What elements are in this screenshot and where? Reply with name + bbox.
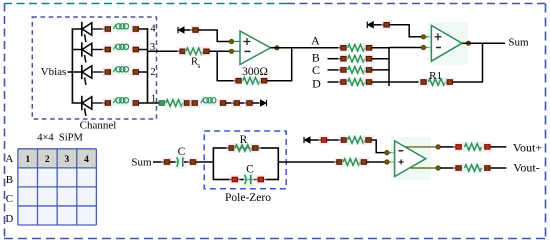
pad row2 right <box>130 67 141 76</box>
wire RA to bus <box>372 47 389 49</box>
node opamp1 output <box>275 46 279 50</box>
pad Rin+ left <box>334 157 345 166</box>
pad RB left <box>338 54 349 63</box>
wire row2 diode to pad <box>92 71 105 73</box>
stub opamp3 minus <box>389 152 395 154</box>
inductor row3 <box>112 43 129 53</box>
svg-text:300Ω: 300Ω <box>242 66 268 78</box>
pad R pz left <box>226 143 237 152</box>
svg-text:s: s <box>198 61 201 70</box>
svg-text:Vbias: Vbias <box>41 66 67 78</box>
node opamp2 output <box>466 41 470 45</box>
wire pad to opamp2 plus <box>389 25 421 37</box>
wire Sum to cap <box>153 161 165 163</box>
resistor R pz <box>234 144 253 153</box>
svg-text:C: C <box>6 193 13 205</box>
node opamp1 plus <box>229 39 233 43</box>
wire pad to opamp1 plus <box>198 30 229 42</box>
svg-text:2: 2 <box>150 67 155 78</box>
wire Rin+ to opamp3 plus <box>367 161 385 163</box>
svg-text:C: C <box>312 63 320 77</box>
pad Rs right <box>201 47 212 56</box>
svg-text:Sum: Sum <box>508 37 529 49</box>
input arrow opamp2 <box>367 21 374 29</box>
pad R1 left <box>418 77 429 86</box>
wire row3 to bus <box>139 49 148 51</box>
pad Rin+ right <box>358 157 369 166</box>
inductor row2 <box>112 66 129 76</box>
resistor Rin+ <box>342 158 361 167</box>
node opamp3 out- <box>436 166 440 170</box>
wire row1 diode to pad <box>92 102 105 104</box>
wire feedback tap down <box>217 51 236 80</box>
inductor row1 out <box>200 97 217 107</box>
wire Rs to opamp1 minus <box>209 50 229 52</box>
svg-text:C: C <box>178 146 186 158</box>
svg-text:C: C <box>246 164 254 176</box>
wire summing node to opamp2 minus <box>389 47 422 49</box>
wire row4 diode to pad <box>92 28 105 30</box>
wire Rin- to opamp3 minus <box>372 140 386 153</box>
diode D2 <box>82 65 92 85</box>
svg-text:D: D <box>5 213 13 225</box>
pad R pz right <box>250 143 261 152</box>
wire opamp3 out- lead <box>411 167 436 169</box>
pole-zero dashed box <box>204 131 286 189</box>
pad row3 left <box>102 45 113 54</box>
wire Rout- to Vout- <box>490 167 506 169</box>
svg-text:R1: R1 <box>429 70 442 82</box>
node opamp2 plus <box>421 35 425 39</box>
outer dashed border bottom <box>4 238 546 240</box>
wire pad to Rin- <box>327 139 342 141</box>
pad RA right <box>364 43 375 52</box>
pad RC left <box>338 65 349 74</box>
wire RC to bus <box>372 69 389 71</box>
capacitor C pz <box>243 173 254 187</box>
wire row2 to bus <box>139 71 148 73</box>
svg-text:D: D <box>312 77 321 91</box>
diode D3 <box>82 42 92 62</box>
svg-text:A: A <box>5 153 13 165</box>
svg-text:Vout+: Vout+ <box>513 141 542 155</box>
pad Rout+ left <box>453 142 464 151</box>
wire row4 to bus <box>139 28 148 30</box>
svg-text:B: B <box>6 174 13 186</box>
node opamp3 minus <box>385 150 389 154</box>
pad row1 left <box>102 98 113 107</box>
pad row1 coil left <box>189 98 200 107</box>
wire row1 out a <box>226 102 234 104</box>
SiPM grid body fill <box>18 149 97 225</box>
inductor row4 <box>112 23 129 33</box>
wire arrow2 to pad <box>374 24 384 26</box>
wire arrow3 to pad <box>311 139 322 141</box>
input arrow row4 <box>178 26 185 34</box>
pad row4 right <box>130 24 141 33</box>
pad Rs left <box>177 47 188 56</box>
wire Rout+ to Vout+ <box>490 146 506 148</box>
resistor RD <box>347 78 366 87</box>
wire row1 out c <box>253 102 260 104</box>
pad row1 out b <box>231 98 242 107</box>
svg-text:1: 1 <box>25 155 30 165</box>
resistor Rs <box>185 47 204 56</box>
wire Vbias bus <box>71 29 73 103</box>
svg-text:Channel: Channel <box>80 120 117 132</box>
pad Rout+ right <box>482 142 493 151</box>
pad row1 out c <box>244 98 255 107</box>
wire row1 out b <box>240 102 247 104</box>
wire row3 to Rs <box>148 50 181 52</box>
wire row1 to bus <box>139 102 148 104</box>
wire row1 anode <box>72 102 82 104</box>
wire pole-zero out to resistor <box>278 161 336 163</box>
pad 300ohm right <box>259 76 270 85</box>
outer dashed border right <box>545 4 547 240</box>
wire out- to pad <box>440 167 456 169</box>
pad cap C left <box>162 157 173 166</box>
pad R1 right <box>444 77 455 86</box>
stub opamp2 minus <box>426 47 432 49</box>
wire opamp3 out+ lead <box>406 146 437 148</box>
pad RC right <box>364 65 375 74</box>
wire R1 to output <box>453 43 483 82</box>
pad row1 coil right <box>218 98 229 107</box>
wire RD to bus <box>372 81 389 83</box>
wire summing bus <box>388 48 390 86</box>
pad RA left <box>338 43 349 52</box>
wire cap to pad <box>184 161 190 163</box>
wire stub C <box>328 69 342 71</box>
stub opamp2 plus <box>426 36 432 38</box>
wire opamp2 output to Sum <box>462 42 505 44</box>
pad row4 left <box>102 24 113 33</box>
pad Rout- right <box>482 163 493 172</box>
SiPM grid lines <box>18 149 97 225</box>
pad opamp2 plus input <box>381 20 392 29</box>
resistor R1 <box>427 78 446 87</box>
pad Rin- left <box>339 135 350 144</box>
capacitor C series <box>176 155 187 169</box>
resistor Rin- <box>347 136 366 145</box>
pad 300ohm left <box>233 76 244 85</box>
wire pad to pole-zero loop <box>196 161 214 163</box>
pad Rout- left <box>453 163 464 172</box>
op-amp U1 <box>240 31 271 65</box>
node opamp2 minus <box>421 45 425 49</box>
wire row1 to R2 <box>148 102 160 104</box>
wire 300ohm to output <box>267 48 292 81</box>
wire Vbias stub <box>68 71 73 73</box>
pad C pz right <box>255 175 266 184</box>
wire row3 diode to pad <box>92 49 105 51</box>
svg-text:4: 4 <box>150 24 156 35</box>
svg-text:R: R <box>240 134 248 146</box>
svg-text:3: 3 <box>65 155 70 165</box>
resistor RA <box>347 43 366 52</box>
node opamp3 out+ <box>436 145 440 149</box>
wire RB to bus <box>372 58 389 60</box>
resistor Rout- <box>464 164 483 173</box>
outer dashed border left <box>4 4 6 240</box>
pad row1 R right <box>182 98 193 107</box>
pad RD left <box>338 77 349 86</box>
stub opamp1 minus <box>234 50 241 52</box>
diode D1 <box>82 96 92 116</box>
outer dashed border top right <box>287 3 546 5</box>
pad opamp1 plus input <box>190 25 201 34</box>
resistor row1 <box>165 99 184 108</box>
outer dashed border top left <box>4 3 287 5</box>
svg-text:A: A <box>311 34 320 48</box>
op-amp U2 <box>428 22 468 65</box>
svg-text:4×4 SiPM: 4×4 SiPM <box>37 133 83 144</box>
wire arrow to pad <box>185 29 194 31</box>
resistor 300ohm <box>242 76 261 85</box>
svg-text:Vout-: Vout- <box>513 160 539 174</box>
resistor RB <box>347 54 366 63</box>
node opamp3 plus <box>385 160 389 164</box>
inductor row1 <box>112 97 129 107</box>
wire pad to cap <box>170 161 178 163</box>
stub opamp3 plus <box>389 161 395 163</box>
op-amp U3 <box>391 137 431 180</box>
pad row2 left <box>102 67 113 76</box>
wire opamp1 output to summing resistor A <box>271 47 342 49</box>
input arrow opamp3 <box>304 136 311 144</box>
wire stub D <box>328 81 342 83</box>
wire channel bus <box>147 28 149 103</box>
wire R1 feedback <box>389 81 419 83</box>
pad row1 right <box>130 98 141 107</box>
channel dashed box <box>32 17 156 119</box>
wire out+ to pad <box>440 146 456 148</box>
svg-text:4: 4 <box>84 155 89 165</box>
pad cap C right <box>188 157 199 166</box>
pad arrow3 <box>319 135 330 144</box>
wire row3 anode <box>72 49 82 51</box>
pad row1 R left <box>159 101 164 106</box>
wire row4 anode <box>72 28 82 30</box>
SiPM grid top row fill <box>18 149 97 168</box>
wire stub B <box>328 58 342 60</box>
svg-text:Pole-Zero: Pole-Zero <box>225 192 271 204</box>
svg-text:Sum: Sum <box>131 157 152 169</box>
svg-text:2: 2 <box>45 155 50 165</box>
pad C pz left <box>229 175 240 184</box>
diode D4 <box>82 22 92 42</box>
resistor RC <box>347 65 366 74</box>
stub opamp1 plus <box>234 41 241 43</box>
resistor Rout+ <box>464 142 483 151</box>
node opamp1 minus <box>229 49 233 53</box>
wire pole-zero loop <box>213 148 278 180</box>
pad row3 right <box>130 45 141 54</box>
wire row2 anode <box>72 71 82 73</box>
pad Rin- right <box>363 135 374 144</box>
arrow row1 out <box>260 99 267 107</box>
pad RB right <box>364 54 375 63</box>
pad RD right <box>364 77 375 86</box>
